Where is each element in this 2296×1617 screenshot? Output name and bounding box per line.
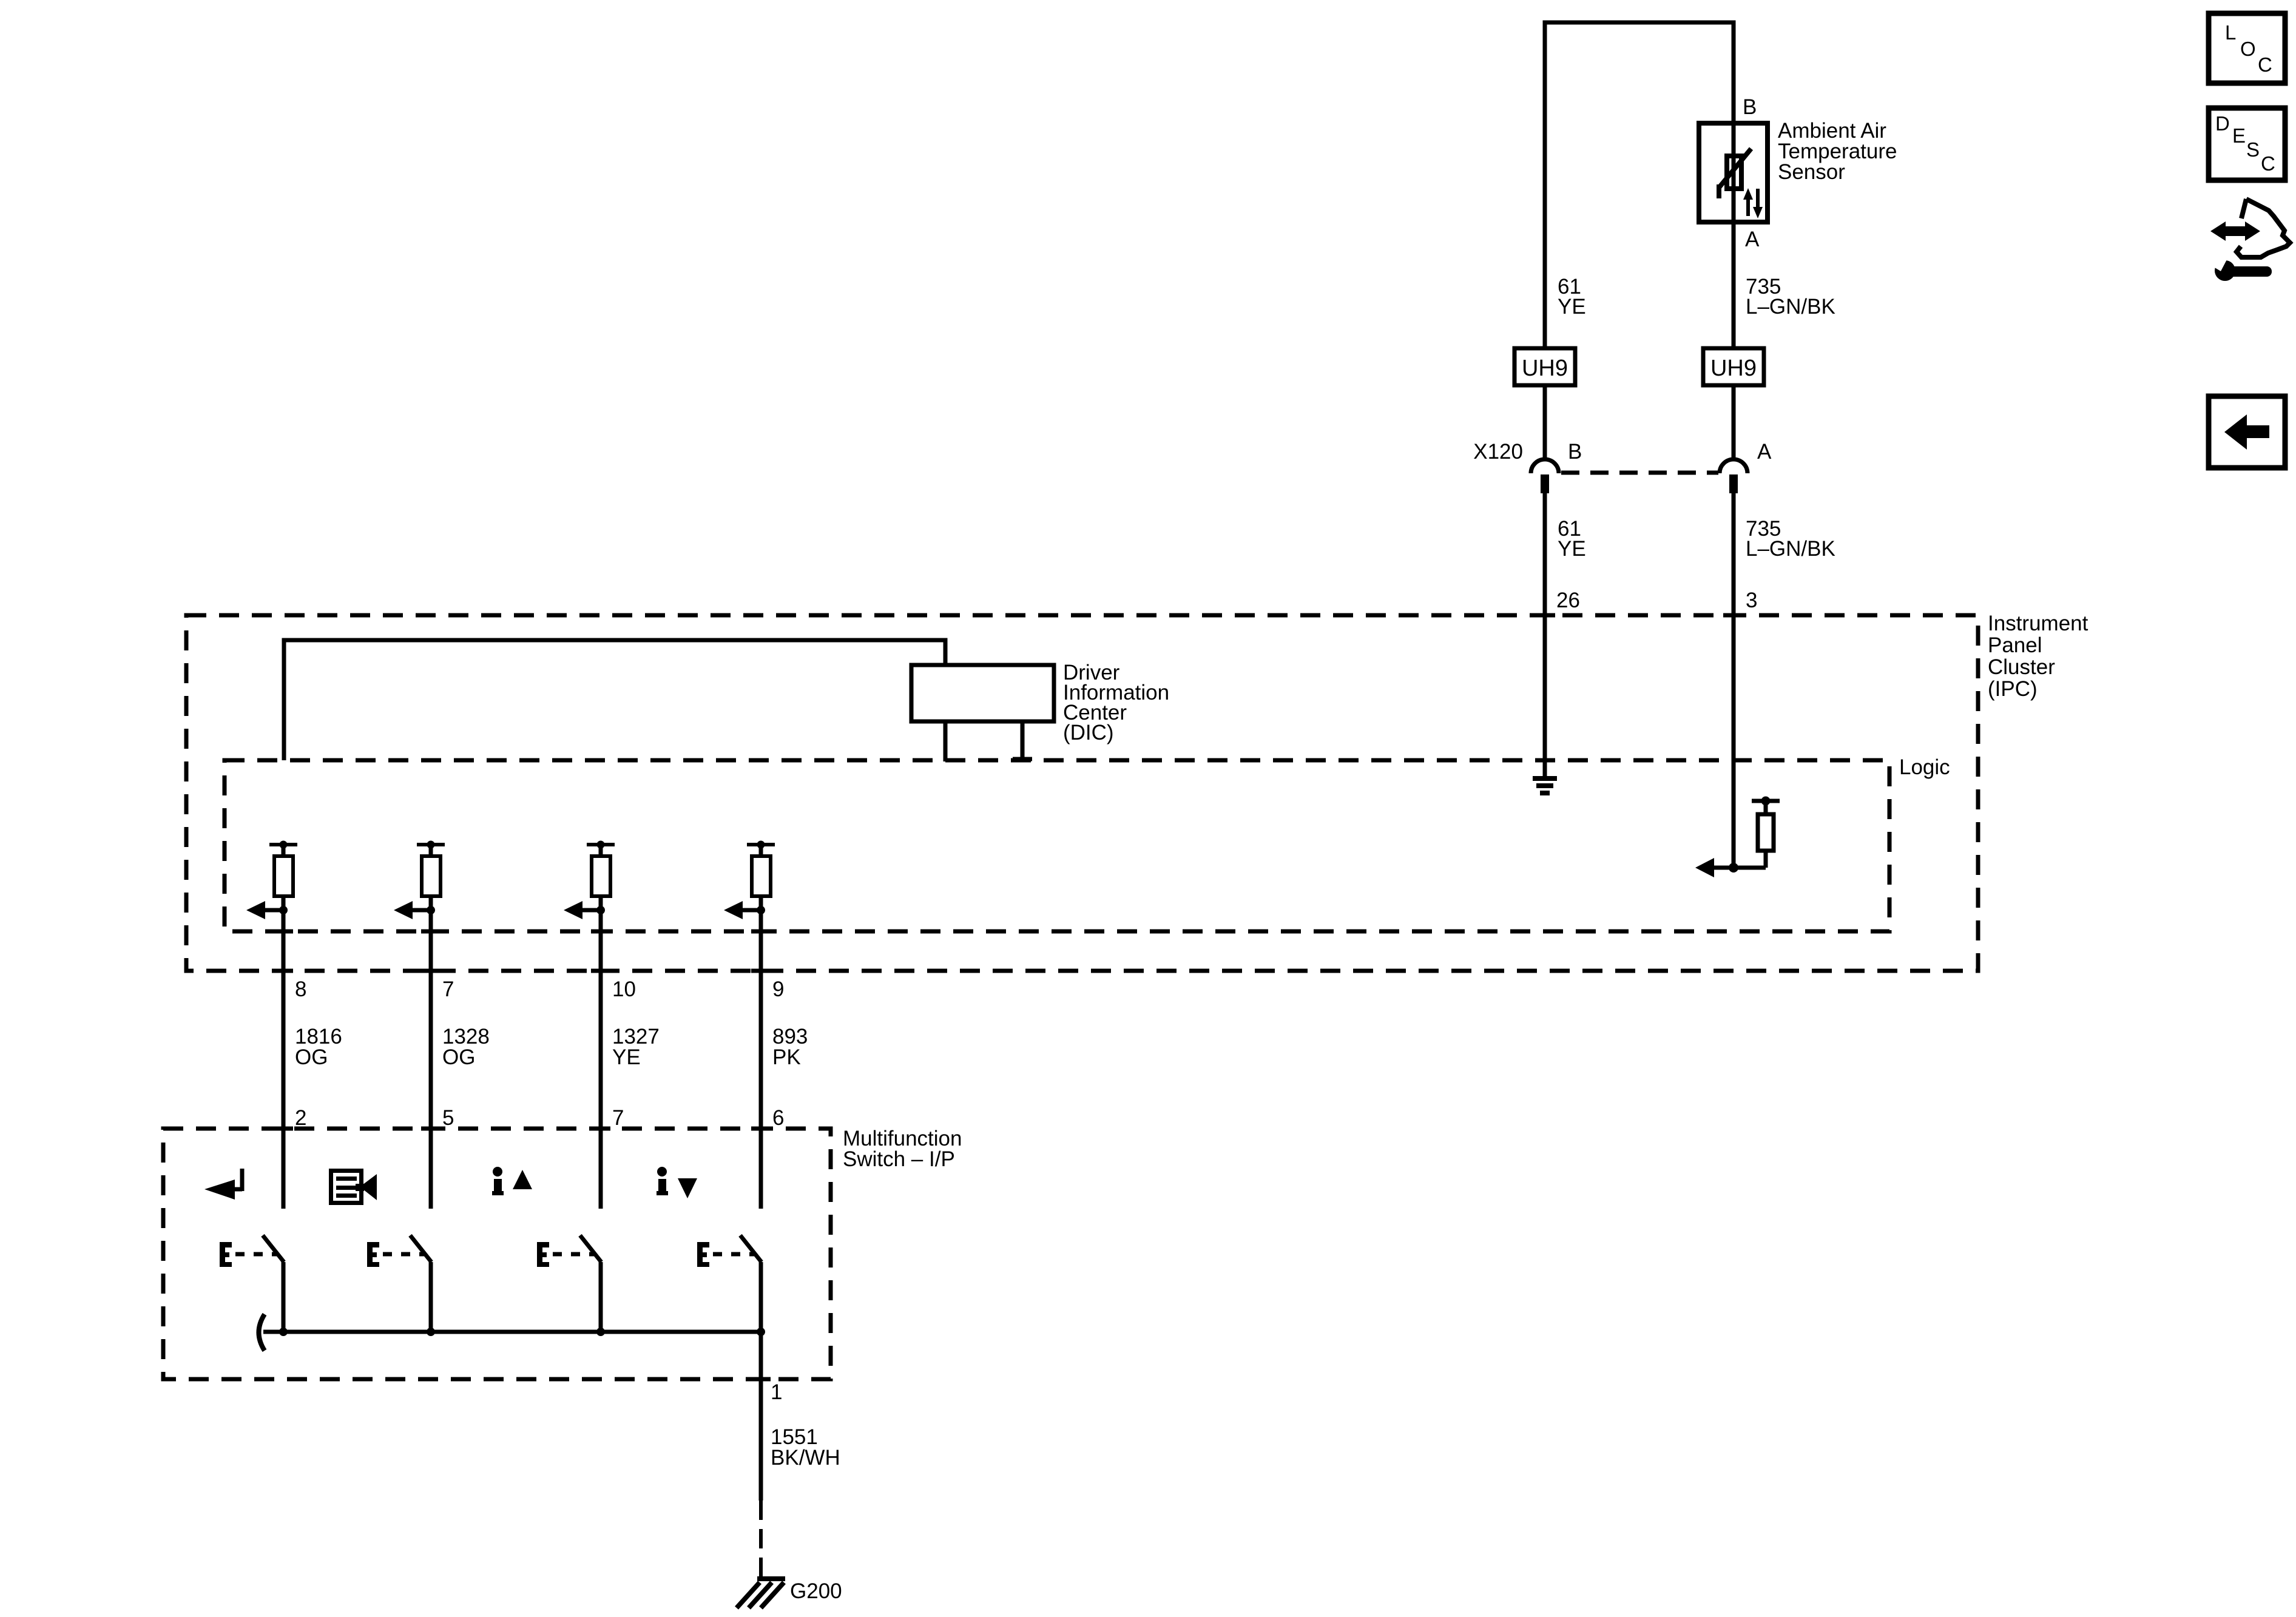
top-right sidebar: adjust/hand icon [2210, 199, 2290, 281]
icon: i with up triangle (column 3) [492, 1167, 532, 1195]
wire: circuit 893 PK column 4 [759, 910, 763, 1209]
bus hook [259, 1314, 265, 1351]
svg-text:Switch – I/P: Switch – I/P [843, 1147, 955, 1171]
junction node at 735/resistor [1729, 863, 1738, 873]
svg-text:B: B [1743, 95, 1757, 119]
wire: DIC harness [284, 640, 945, 760]
top-right sidebar: DESC box [2209, 108, 2285, 180]
svg-text:YE: YE [1558, 537, 1586, 561]
junction node column 1 [279, 906, 288, 914]
resistor R3 (column 3) [587, 841, 615, 911]
signal arrow at column 2 node [413, 908, 431, 913]
svg-text:UH9: UH9 [1710, 356, 1757, 381]
icon: menu page with speaker (column 2) [331, 1171, 377, 1203]
junction node column 2 [427, 906, 435, 914]
Driver Information Center box [911, 665, 1054, 721]
inline connector UH9 (left) [1514, 348, 1575, 385]
svg-text:X120: X120 [1473, 440, 1523, 464]
svg-text:A: A [1745, 228, 1760, 251]
DIC pin 1 stub [944, 721, 948, 761]
svg-text:E: E [2232, 124, 2246, 147]
svg-text:(DIC): (DIC) [1063, 721, 1114, 744]
svg-text:7: 7 [612, 1106, 624, 1130]
svg-text:9: 9 [772, 977, 784, 1001]
wire: circuit 1327 YE column 3 [599, 910, 603, 1209]
pin tick 3 at IPC border [1723, 613, 1744, 618]
svg-text:A: A [1757, 440, 1772, 464]
wire: circuit 1816 OG column 1 [282, 910, 286, 1209]
junction node column 3 [596, 906, 605, 914]
icon: i with down triangle (column 4) [657, 1167, 697, 1198]
wire: 735 from UH9 to X120 [1732, 385, 1736, 460]
svg-text:26: 26 [1556, 589, 1580, 612]
svg-text:S: S [2246, 138, 2260, 161]
connector X120 terminal B arc [1531, 459, 1559, 473]
pin tick 26 at IPC border [1535, 613, 1555, 618]
svg-text:D: D [2215, 112, 2230, 135]
svg-text:2: 2 [295, 1106, 306, 1130]
svg-text:10: 10 [612, 977, 636, 1001]
up/down arrows inside sensor box [1743, 188, 1763, 218]
resistor R4 (column 4) [747, 841, 775, 911]
svg-text:3: 3 [1746, 589, 1757, 612]
svg-text:L: L [2225, 21, 2236, 44]
Multifunction Switch dashed box [163, 1129, 831, 1379]
wire: circuit 1328 OG column 2 [429, 910, 433, 1209]
wire: 61 YE from UH9 to X120 [1543, 385, 1547, 460]
connector X120 terminal A arc [1720, 459, 1747, 473]
svg-text:8: 8 [295, 977, 306, 1001]
ambient air temperature sensor box U1 [1699, 123, 1768, 222]
svg-text:UH9: UH9 [1522, 356, 1568, 381]
icon: return arrow (column 1) [204, 1169, 242, 1200]
thermistor symbol inside sensor [1719, 149, 1751, 198]
svg-text:Logic: Logic [1899, 755, 1950, 779]
wire: 61 YE from X120 into IPC [1543, 493, 1547, 777]
svg-text:6: 6 [772, 1106, 784, 1130]
svg-text:YE: YE [1558, 295, 1586, 319]
ground inside IPC logic (61 YE) [1533, 778, 1557, 793]
wire: 1551 BK/WH to ground [759, 1332, 763, 1501]
bus wire at switch commons [263, 1330, 761, 1334]
svg-text:B: B [1568, 440, 1582, 464]
svg-text:5: 5 [442, 1106, 454, 1130]
Logic dashed box [225, 760, 1889, 931]
svg-text:YE: YE [612, 1045, 641, 1069]
wire: top loop between sensor pin B and 61 YE circuit [1545, 22, 1734, 348]
svg-text:L–GN/BK: L–GN/BK [1746, 537, 1835, 561]
svg-text:Sensor: Sensor [1778, 160, 1845, 184]
wire: switch 2 to bus [429, 1262, 433, 1332]
inline connector UH9 (right) [1703, 348, 1764, 385]
resistor R5 (735 input pull-up) [1752, 797, 1780, 868]
switch S3 [537, 1235, 601, 1267]
dashed connector line X120 [1561, 471, 1718, 475]
ground G200 symbol [737, 1579, 785, 1608]
signal arrow at column 1 node [265, 908, 283, 913]
svg-text:O: O [2240, 38, 2256, 60]
signal arrow at column 4 node [743, 908, 761, 913]
wire: 735 from X120 into IPC [1732, 493, 1736, 868]
svg-text:1: 1 [771, 1380, 782, 1404]
svg-text:PK: PK [772, 1045, 801, 1069]
svg-text:G200: G200 [790, 1579, 842, 1603]
svg-text:BK/WH: BK/WH [771, 1446, 840, 1470]
svg-text:7: 7 [442, 977, 454, 1001]
svg-text:Cluster: Cluster [1988, 655, 2055, 679]
switch S4 [697, 1235, 761, 1267]
svg-text:C: C [2258, 53, 2272, 76]
svg-text:C: C [2261, 152, 2275, 175]
connector X120 terminal B pin [1541, 474, 1549, 493]
junction dots on bus [279, 1328, 288, 1336]
switch S2 [367, 1235, 431, 1267]
junction node column 4 [757, 906, 765, 914]
resistor R1 (column 1) [269, 841, 297, 911]
top-right sidebar: back arrow box [2209, 396, 2285, 468]
svg-text:OG: OG [442, 1045, 475, 1069]
wire: switch 4 to bus [759, 1262, 763, 1332]
svg-text:Panel: Panel [1988, 633, 2042, 657]
connector X120 terminal A pin [1729, 474, 1738, 493]
signal arrow at column 3 node [582, 908, 601, 913]
svg-text:L–GN/BK: L–GN/BK [1746, 295, 1835, 319]
top-right sidebar: LOC box [2209, 13, 2285, 83]
svg-text:Instrument: Instrument [1988, 612, 2088, 635]
svg-text:(IPC): (IPC) [1988, 677, 2038, 701]
signal arrow at 735 node [1713, 866, 1766, 870]
wire: switch 3 to bus [599, 1262, 603, 1332]
Instrument Panel Cluster dashed box [186, 615, 1978, 971]
DIC pin 2 stub [1021, 721, 1025, 760]
resistor R2 (column 2) [417, 841, 445, 911]
wire: switch 1 to bus [282, 1262, 286, 1332]
switch S1 [220, 1235, 284, 1267]
svg-text:OG: OG [295, 1045, 328, 1069]
